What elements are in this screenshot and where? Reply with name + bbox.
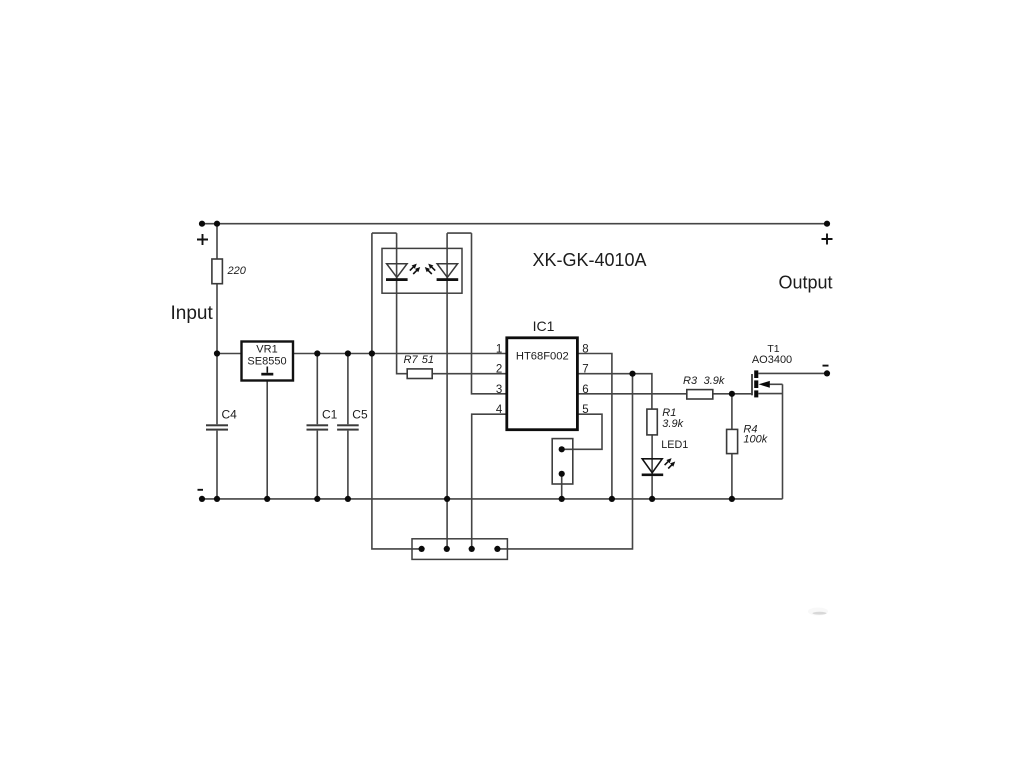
node ground at VR1 bbox=[264, 496, 270, 502]
svg-text:Output: Output bbox=[779, 273, 833, 293]
wire pin8 down to ground bbox=[577, 354, 612, 499]
node ground at jumper bbox=[559, 496, 565, 502]
svg-text:HT68F002: HT68F002 bbox=[516, 350, 569, 362]
wire pin7 branch down to connector pin4 bbox=[497, 374, 632, 549]
wire opto left outer to connector pin1 bbox=[372, 233, 422, 549]
svg-text:T1: T1 bbox=[767, 343, 779, 355]
node input- terminal dot bbox=[199, 496, 205, 502]
node pin7 branch junction bbox=[629, 371, 635, 377]
svg-text:3.9k: 3.9k bbox=[662, 418, 683, 430]
wire mid rail pin1 bbox=[217, 353, 507, 355]
node VCC rail at VR1 input bbox=[214, 350, 220, 356]
svg-text:LED1: LED1 bbox=[661, 439, 688, 451]
svg-text:100k: 100k bbox=[743, 434, 767, 446]
svg-text:C1: C1 bbox=[322, 408, 338, 422]
node ground at C5 bbox=[345, 496, 351, 502]
T1 body diode arrow bbox=[759, 381, 770, 388]
node input+ terminal dot bbox=[199, 221, 205, 227]
wire T1 drain to output bbox=[758, 372, 827, 374]
node ground at C4 bbox=[214, 496, 220, 502]
svg-text:VR1: VR1 bbox=[256, 344, 277, 356]
svg-text:XK-GK-4010A: XK-GK-4010A bbox=[533, 250, 647, 270]
resistor R3 bbox=[687, 390, 713, 399]
wire C5 bbox=[347, 354, 349, 499]
svg-text:2: 2 bbox=[496, 364, 502, 376]
svg-text:3.9k: 3.9k bbox=[704, 375, 725, 387]
node output+ terminal dot bbox=[824, 221, 830, 227]
wire R4 to ground bbox=[731, 454, 733, 499]
regulator VR1 SE8550 bbox=[242, 342, 294, 381]
faint smudge artifact bbox=[808, 608, 828, 616]
opto right LED bbox=[437, 264, 458, 278]
opto left emission arrows bbox=[410, 264, 420, 274]
svg-text:C5: C5 bbox=[352, 408, 368, 422]
node input plus mark bbox=[197, 234, 208, 245]
node connector pin 1 bbox=[419, 546, 425, 552]
opto right emission arrows bbox=[425, 264, 435, 274]
svg-text:3: 3 bbox=[496, 384, 502, 396]
connector J bottom 4-pin bbox=[412, 539, 507, 560]
capacitor C5 bbox=[337, 424, 359, 430]
wire R7 to pin2 bbox=[432, 373, 507, 375]
node T1 gate R3 R4 junction bbox=[729, 391, 735, 397]
ground symbol inside VR1 bbox=[266, 367, 268, 373]
LED1 bbox=[642, 459, 662, 473]
resistor R7 bbox=[407, 369, 432, 379]
T1 channel segments bbox=[754, 370, 758, 397]
svg-text:51: 51 bbox=[422, 354, 434, 366]
T1 gate bar bbox=[751, 374, 753, 395]
wire pin7 to R1 bbox=[577, 374, 652, 409]
node connector pin 4 bbox=[494, 546, 500, 552]
wire opto right staple cap bbox=[447, 232, 471, 234]
resistor R1 bbox=[647, 409, 657, 435]
wire pin5 to jumper bbox=[562, 414, 602, 449]
node output minus mark bbox=[823, 365, 829, 367]
wire input + to resistor bbox=[216, 224, 218, 259]
svg-text:Input: Input bbox=[171, 303, 214, 324]
IC1 HT68F002 bbox=[507, 338, 578, 430]
wire R1 to LED1 bbox=[651, 435, 653, 476]
node top rail junction bbox=[214, 221, 220, 227]
svg-text:5: 5 bbox=[582, 404, 588, 416]
wire opto right outer to pin3 bbox=[472, 233, 507, 394]
svg-text:6: 6 bbox=[582, 384, 588, 396]
node jumper pin b bbox=[559, 471, 565, 477]
wire opto right inner to ground and connector pin2 bbox=[446, 233, 448, 549]
svg-text:7: 7 bbox=[582, 364, 588, 376]
wire gate node down to R4 bbox=[731, 394, 733, 430]
capacitor C1 bbox=[307, 424, 329, 430]
node ground at C1 bbox=[314, 496, 320, 502]
wire opto left staple cap bbox=[372, 232, 397, 234]
wire LED1 to ground bbox=[651, 476, 653, 499]
wire T1 source down to ground rail bbox=[782, 384, 784, 499]
wire pin6 to R3 bbox=[577, 393, 686, 395]
wire T1 body arrow to source bbox=[770, 383, 783, 385]
resistor 220 bbox=[212, 259, 223, 284]
LED1 emission arrows bbox=[665, 458, 676, 468]
wire R3 to gate bbox=[713, 393, 752, 395]
node ground at opto cathode line bbox=[444, 496, 450, 502]
svg-text:220: 220 bbox=[227, 265, 247, 277]
wire resistor to C4 to ground bbox=[216, 284, 218, 499]
svg-text:C4: C4 bbox=[222, 408, 238, 422]
wire C1 bbox=[316, 354, 318, 499]
opto left LED bbox=[387, 264, 408, 278]
svg-text:R3: R3 bbox=[683, 375, 698, 387]
wire jumper to ground bbox=[561, 474, 563, 499]
node connector pin 3 bbox=[469, 546, 475, 552]
svg-text:4: 4 bbox=[496, 404, 503, 416]
wire pin4 to connector pin3 bbox=[472, 414, 507, 549]
node jumper pin a bbox=[559, 446, 565, 452]
wire VR1 ground lead bbox=[266, 381, 268, 499]
svg-text:8: 8 bbox=[582, 344, 588, 356]
node output- terminal dot bbox=[824, 370, 830, 376]
capacitor C4 bbox=[206, 424, 228, 430]
wire opto left inner to R7 bbox=[397, 233, 408, 374]
resistor R4 bbox=[727, 429, 738, 453]
wire T1 source horizontal bbox=[758, 393, 782, 395]
svg-text:R7: R7 bbox=[404, 354, 419, 366]
node ground at pin8 line bbox=[609, 496, 615, 502]
node ground at LED1 bbox=[649, 496, 655, 502]
node output plus mark bbox=[822, 234, 833, 245]
node VCC rail at C5 bbox=[345, 350, 351, 356]
wire top rail bbox=[202, 223, 827, 225]
optocoupler box bbox=[382, 248, 462, 293]
svg-text:AO3400: AO3400 bbox=[752, 354, 792, 366]
svg-text:1: 1 bbox=[496, 344, 502, 356]
connector jumper 2-pin below IC bbox=[552, 439, 573, 484]
node input minus mark bbox=[198, 489, 204, 491]
node VCC rail at C1 bbox=[314, 350, 320, 356]
node VCC rail at opto branch bbox=[369, 350, 375, 356]
wire ground rail bbox=[202, 498, 783, 500]
svg-text:IC1: IC1 bbox=[533, 318, 555, 334]
svg-text:R1: R1 bbox=[662, 407, 676, 419]
svg-text:SE8550: SE8550 bbox=[247, 355, 286, 367]
node ground at R4 bbox=[729, 496, 735, 502]
node connector pin 2 bbox=[444, 546, 450, 552]
